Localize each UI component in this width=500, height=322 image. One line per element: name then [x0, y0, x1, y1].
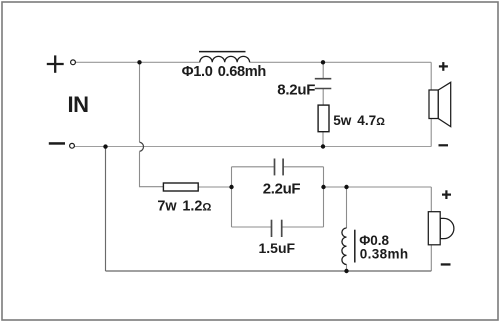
svg-text:0.38mh: 0.38mh: [360, 247, 409, 262]
resistor R2: [163, 183, 198, 191]
wire resistor R2 to cap bank: [198, 186, 231, 188]
wire bottom rail: [106, 270, 432, 272]
wire cap C1 branch top lead: [322, 62, 324, 78]
svg-text:1.5uF: 1.5uF: [259, 240, 296, 256]
wire top rail right of inductor: [250, 61, 432, 63]
plus terminal symbol: [47, 55, 64, 72]
wire cap bank bottom right segment: [282, 226, 324, 228]
wire cap bank top left segment: [232, 166, 275, 168]
junction cap bank left: [229, 185, 233, 189]
inductor L2 coil: [342, 228, 347, 264]
wire vertical from plus junction upper: [139, 62, 141, 142]
tweeter speaker: [428, 212, 454, 245]
junction minus rail left: [103, 144, 107, 148]
capacitor C2 plates: [275, 159, 284, 176]
woofer minus label: [439, 144, 449, 146]
inductor L2 core bar: [354, 230, 356, 263]
woofer speaker: [429, 82, 451, 126]
wire minus rail: [75, 146, 432, 148]
wire cap bank right rail: [323, 167, 325, 227]
svg-text:Φ1.0 0.68mh: Φ1.0 0.68mh: [182, 64, 267, 80]
inductor L1 coil: [200, 56, 250, 62]
svg-text:5w 4.7Ω: 5w 4.7Ω: [333, 113, 385, 128]
minus terminal circle: [70, 143, 75, 148]
wire + rail top: [76, 61, 200, 63]
capacitor C1 plates: [315, 79, 332, 89]
svg-text:7w 1.2Ω: 7w 1.2Ω: [157, 199, 211, 215]
wire cap bank top right segment: [283, 166, 323, 168]
junction L2 top: [344, 185, 348, 189]
woofer plus label: [439, 62, 448, 71]
capacitor C3 plates: [272, 220, 282, 237]
tweeter plus label: [442, 190, 451, 199]
junction top plus: [137, 60, 141, 64]
junction minus rail under R1: [321, 144, 325, 148]
junction L2 bottom: [344, 269, 348, 273]
wire woofer minus drop: [430, 119, 432, 147]
wire cap bank to tweeter branch: [324, 186, 432, 188]
wire cap C1 to resistor R1: [322, 89, 324, 106]
wire tweeter plus drop: [430, 187, 432, 212]
svg-text:2.2uF: 2.2uF: [263, 180, 301, 197]
tweeter minus label: [441, 263, 451, 265]
wire tweeter minus drop: [430, 245, 432, 271]
svg-text:IN: IN: [68, 92, 89, 117]
wire cap bank left rail: [231, 167, 233, 227]
junction top cap branch: [321, 60, 325, 64]
wire cap bank bottom left segment: [232, 226, 272, 228]
wire woofer plus drop: [430, 62, 432, 90]
wire resistor R1 bottom lead: [322, 132, 324, 147]
wire vertical from plus junction lower: [140, 151, 164, 186]
minus terminal symbol: [49, 142, 65, 145]
plus terminal circle: [71, 60, 76, 65]
junction cap bank right: [321, 185, 325, 189]
wire inductor L2 bottom lead: [346, 265, 348, 272]
wire minus junction down: [105, 147, 107, 271]
svg-text:8.2uF: 8.2uF: [277, 81, 315, 98]
wire hop over minus rail: [140, 142, 144, 151]
resistor R1: [318, 105, 329, 132]
inductor L1 core bar: [199, 51, 246, 53]
wire inductor L2 top lead: [346, 187, 348, 228]
